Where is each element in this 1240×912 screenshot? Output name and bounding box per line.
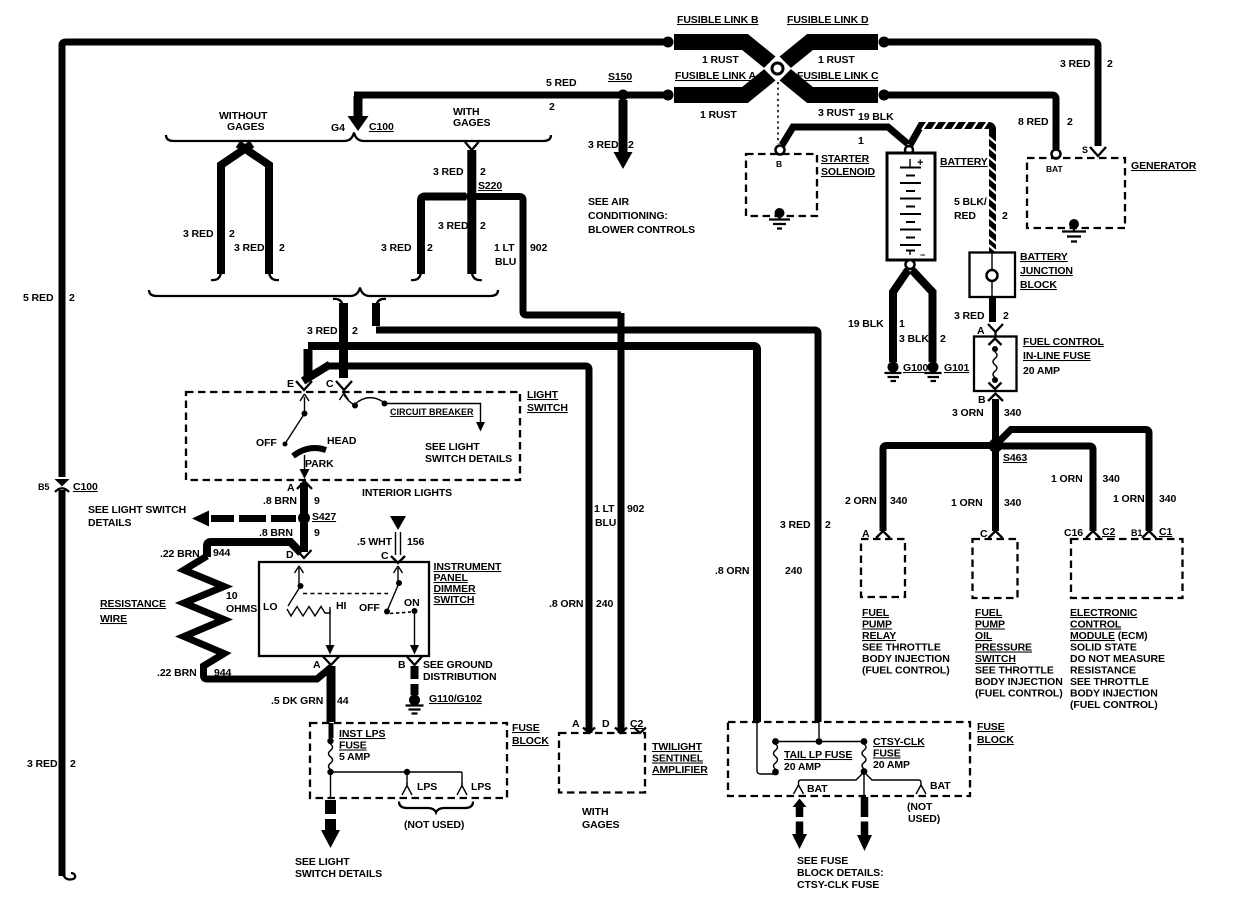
ctsy-clk fuse 20 amp <box>776 722 926 775</box>
svg-text:FUEL CONTROL: FUEL CONTROL <box>1023 336 1105 348</box>
generator terminal BAT circle <box>1046 150 1063 175</box>
twilight sentinel amplifier terminals A D C2 <box>572 718 646 733</box>
svg-text:CONDITIONING:: CONDITIONING: <box>588 210 668 222</box>
svg-text:8 RED: 8 RED <box>1018 116 1049 128</box>
fuel pump relay labels <box>862 607 950 677</box>
label 3 RED 2 (left vertical lower) <box>27 758 76 770</box>
svg-text:INST LPS: INST LPS <box>339 728 386 740</box>
svg-text:20 AMP: 20 AMP <box>1023 365 1060 377</box>
svg-text:RELAY: RELAY <box>862 630 896 642</box>
light switch box <box>186 392 520 480</box>
svg-text:2: 2 <box>1107 58 1113 70</box>
ground G110/G102 <box>406 693 483 714</box>
svg-text:FUSIBLE LINK B: FUSIBLE LINK B <box>677 14 759 26</box>
svg-text:WITH: WITH <box>582 806 608 818</box>
wire: 3 RED 2 from fusible link D to generator S <box>884 42 1098 146</box>
wire: 1 ORN 340 S463 right to ECM C16/C2 <box>1000 446 1120 531</box>
label with gages <box>453 106 491 129</box>
svg-text:SEE THROTTLE: SEE THROTTLE <box>975 665 1054 677</box>
svg-text:SWITCH: SWITCH <box>527 402 568 414</box>
svg-text:2: 2 <box>427 242 433 254</box>
fuel pump oil pressure switch box <box>973 539 1018 598</box>
svg-text:340: 340 <box>1004 407 1021 419</box>
svg-text:SEE THROTTLE: SEE THROTTLE <box>862 642 941 654</box>
svg-text:944: 944 <box>213 547 230 559</box>
thin wire through fuse block bottom <box>330 775 332 799</box>
svg-text:.8 BRN: .8 BRN <box>263 495 297 507</box>
connector G4 / C100 down arrow <box>331 96 394 134</box>
label LO / HI <box>263 600 346 613</box>
fusible link A and D crossover band <box>674 42 878 95</box>
svg-text:BLOWER CONTROLS: BLOWER CONTROLS <box>588 224 695 236</box>
svg-text:RED: RED <box>954 210 976 222</box>
svg-text:.22 BRN: .22 BRN <box>160 548 200 560</box>
svg-text:340: 340 <box>1004 497 1021 509</box>
svg-text:S427: S427 <box>312 511 336 523</box>
dimmer HI arm arrow to A <box>326 611 335 655</box>
svg-text:BLOCK DETAILS:: BLOCK DETAILS: <box>797 867 883 879</box>
svg-text:1 ORN: 1 ORN <box>1051 473 1083 485</box>
wire: 8 RED 2 from fusible link C to generator BAT <box>884 95 1056 149</box>
svg-text:(NOT USED): (NOT USED) <box>404 819 464 831</box>
svg-text:3 RED: 3 RED <box>954 310 985 322</box>
svg-text:3 RED: 3 RED <box>1060 58 1091 70</box>
light switch terminal E <box>287 378 312 390</box>
svg-text:5 RED: 5 RED <box>23 292 54 304</box>
svg-text:2: 2 <box>229 228 235 240</box>
svg-text:.22 BRN: .22 BRN <box>157 667 197 679</box>
svg-text:E: E <box>287 378 294 390</box>
svg-text:5 BLK/: 5 BLK/ <box>954 196 987 208</box>
svg-text:3 RED: 3 RED <box>433 166 464 178</box>
label OFF / ON <box>359 597 420 614</box>
svg-text:C: C <box>326 378 334 390</box>
svg-text:1: 1 <box>899 318 905 330</box>
wire to LPS terminals (not used) <box>331 769 492 795</box>
svg-text:340: 340 <box>1159 493 1176 505</box>
svg-text:DISTRIBUTION: DISTRIBUTION <box>423 671 496 683</box>
connector C100 upper brace <box>166 133 551 142</box>
svg-text:PARK: PARK <box>305 458 334 470</box>
svg-text:ON: ON <box>404 597 420 609</box>
electronic control module box <box>1071 539 1183 598</box>
svg-text:FUEL: FUEL <box>975 607 1003 619</box>
generator terminal S <box>1082 145 1106 156</box>
svg-text:2 ORN: 2 ORN <box>845 495 877 507</box>
dimmer terminal A <box>313 657 339 672</box>
wire: 5 BLK/RED fusible-link-style slashed wire to battery junction block <box>910 121 1008 252</box>
svg-text:(FUEL CONTROL): (FUEL CONTROL) <box>1070 699 1158 711</box>
svg-text:156: 156 <box>407 536 424 548</box>
svg-text:G110/G102: G110/G102 <box>429 693 482 705</box>
svg-text:C2: C2 <box>630 718 643 730</box>
label 5 RED 2 <box>546 77 577 113</box>
svg-text:2: 2 <box>940 333 946 345</box>
svg-text:BATTERY: BATTERY <box>940 156 988 168</box>
svg-text:19 BLK: 19 BLK <box>858 111 894 123</box>
svg-text:.8 BRN: .8 BRN <box>259 527 293 539</box>
svg-text:USED): USED) <box>908 813 940 825</box>
svg-text:A: A <box>572 718 580 730</box>
battery <box>887 153 988 260</box>
svg-text:LO: LO <box>263 601 277 613</box>
wire: 2 ORN 340 S463 to fuel pump relay A <box>845 446 996 532</box>
label light switch <box>527 389 568 414</box>
svg-text:3 RED: 3 RED <box>27 758 58 770</box>
generator box <box>1027 158 1125 228</box>
svg-text:A: A <box>977 325 985 337</box>
svg-text:D: D <box>602 718 610 730</box>
svg-text:OIL: OIL <box>975 630 993 642</box>
svg-text:20 AMP: 20 AMP <box>784 761 821 773</box>
svg-text:1: 1 <box>858 135 864 147</box>
svg-text:SOLID STATE: SOLID STATE <box>1070 642 1137 654</box>
svg-text:BODY INJECTION: BODY INJECTION <box>1070 688 1158 700</box>
wire: 3 RED 2 bus to bottom-right fuse block (CTSY-CLK) <box>376 330 831 722</box>
svg-text:S220: S220 <box>478 180 502 192</box>
fuel control in-line fuse terminal B <box>978 394 1003 407</box>
svg-text:240: 240 <box>596 598 613 610</box>
svg-text:SEE LIGHT: SEE LIGHT <box>425 441 480 453</box>
dashed arrow: see light switch details (bottom) <box>295 800 382 880</box>
svg-text:5 AMP: 5 AMP <box>339 751 370 763</box>
wire: 19 BLK 1 battery to ground G100 <box>893 270 908 362</box>
svg-text:FUSIBLE LINK D: FUSIBLE LINK D <box>787 14 869 26</box>
svg-text:2: 2 <box>352 325 358 337</box>
svg-text:SWITCH DETAILS: SWITCH DETAILS <box>295 868 382 880</box>
dimmer ON arm arrow to B <box>410 614 419 655</box>
svg-text:.5 DK GRN: .5 DK GRN <box>271 695 323 707</box>
wire: 3 RED tent left (without gages) <box>183 144 285 280</box>
svg-text:STARTER: STARTER <box>821 153 870 165</box>
splice S463 <box>989 439 1028 465</box>
light switch terminal C <box>326 378 352 390</box>
instrument panel dimmer switch box <box>259 562 429 656</box>
note: see ground distribution <box>423 659 496 683</box>
svg-text:FUSIBLE LINK C: FUSIBLE LINK C <box>797 70 879 82</box>
svg-text:GAGES: GAGES <box>227 121 265 133</box>
svg-text:S: S <box>1082 145 1088 155</box>
svg-text:340: 340 <box>1103 473 1120 485</box>
svg-text:2: 2 <box>1003 310 1009 322</box>
svg-text:3 ORN: 3 ORN <box>952 407 984 419</box>
svg-text:SEE FUSE: SEE FUSE <box>797 855 848 867</box>
dimmer terminal B <box>398 657 422 672</box>
wire: 3 RED S220 center down <box>438 200 486 280</box>
svg-text:PUMP: PUMP <box>975 619 1005 631</box>
crossover center diamond with circle <box>764 55 792 83</box>
svg-text:B: B <box>776 159 782 169</box>
svg-text:(FUEL CONTROL): (FUEL CONTROL) <box>975 688 1063 700</box>
svg-text:HI: HI <box>336 600 346 612</box>
svg-text:2: 2 <box>279 242 285 254</box>
wire: 1 LT BLU 902 S220 right branch jog <box>477 197 621 316</box>
tail lp fuse 20 amp <box>757 722 852 775</box>
wire: 3 BLK 2 battery to ground G101 <box>912 270 933 362</box>
svg-text:RESISTANCE: RESISTANCE <box>1070 665 1136 677</box>
note: see fuse block details <box>797 855 883 891</box>
connector C100 pin B5 (in-line connector symbol on left wire) <box>38 477 98 493</box>
wire: 1 ORN 340 S463 down to oil pressure switch C <box>951 450 1021 531</box>
svg-text:S150: S150 <box>608 71 632 83</box>
brace (not used) <box>399 802 473 832</box>
svg-text:SEE AIR: SEE AIR <box>588 196 629 208</box>
light switch PARK contact arc <box>293 448 326 456</box>
splice S427 <box>298 511 336 524</box>
generator ground <box>1062 219 1086 242</box>
svg-text:1 ORN: 1 ORN <box>951 497 983 509</box>
fuel pump relay box <box>861 539 905 597</box>
svg-text:3 RED: 3 RED <box>588 139 619 151</box>
svg-text:SENTINEL: SENTINEL <box>652 753 704 765</box>
dimmer terminal C <box>391 556 405 563</box>
light switch A arm arrow <box>300 455 310 479</box>
svg-text:G4: G4 <box>331 122 345 134</box>
light switch interior: E arm <box>283 394 310 447</box>
svg-text:1 RUST: 1 RUST <box>700 109 737 121</box>
dimmer terminal D <box>286 549 312 561</box>
svg-text:2: 2 <box>1067 116 1073 128</box>
svg-text:D: D <box>286 549 294 561</box>
svg-text:3 RUST: 3 RUST <box>818 107 855 119</box>
svg-text:9: 9 <box>314 527 320 539</box>
svg-text:C100: C100 <box>73 481 98 493</box>
ground G100 <box>885 362 929 382</box>
svg-text:DO NOT MEASURE: DO NOT MEASURE <box>1070 653 1165 665</box>
labels fusible links <box>675 14 894 123</box>
wire: .8 ORN 240 light switch E to tail lp fuse <box>308 346 802 722</box>
battery plus terminal circle <box>905 146 913 154</box>
svg-text:DETAILS: DETAILS <box>88 517 132 529</box>
svg-text:TWILIGHT: TWILIGHT <box>652 741 703 753</box>
INST LPS fuse 5 AMP <box>327 723 385 775</box>
light switch terminal A <box>287 481 312 494</box>
dimmer on/off switch <box>384 566 418 615</box>
svg-text:BAT: BAT <box>807 783 828 795</box>
ECM terminal C16/C2 <box>1064 526 1115 539</box>
svg-text:A: A <box>287 482 295 494</box>
bat terminals inside fuse block <box>794 772 952 826</box>
starter solenoid terminal B circle <box>776 146 785 155</box>
svg-text:.8 ORN: .8 ORN <box>715 565 749 577</box>
svg-text:(FUEL CONTROL): (FUEL CONTROL) <box>862 665 950 677</box>
label 5 RED 2 (left vertical upper) <box>23 292 75 304</box>
svg-text:BATTERY: BATTERY <box>1020 251 1068 263</box>
svg-text:2: 2 <box>549 101 555 113</box>
svg-text:1 RUST: 1 RUST <box>702 54 739 66</box>
svg-text:BODY INJECTION: BODY INJECTION <box>975 676 1063 688</box>
svg-text:SEE LIGHT SWITCH: SEE LIGHT SWITCH <box>88 504 186 516</box>
svg-text:C16: C16 <box>1064 527 1083 539</box>
svg-text:HEAD: HEAD <box>327 435 357 447</box>
wire: 5 RED from C100 G4 to S150 to fusible link A <box>354 92 664 99</box>
dashed ground wire below dimmer B <box>411 666 419 695</box>
svg-text:BLOCK: BLOCK <box>512 735 549 747</box>
wire: 3 RED down arrow to air conditioning <box>588 100 634 169</box>
svg-text:BAT: BAT <box>1046 164 1063 174</box>
node: fusible link end dots <box>663 37 890 101</box>
wire: 3 ORN 340 fuse B to splice S463 <box>952 399 1021 441</box>
wire: 3 RED 2 main feed below C100 to light switch C <box>307 299 358 378</box>
wire: second leg below C100 into 3 RED bus <box>376 299 386 326</box>
svg-text:CONTROL: CONTROL <box>1070 619 1122 631</box>
svg-text:19 BLK: 19 BLK <box>848 318 884 330</box>
svg-text:902: 902 <box>530 242 547 254</box>
dimmer interior: D arm to LO <box>288 566 388 606</box>
svg-text:3 BLK: 3 BLK <box>899 333 929 345</box>
fuel pump relay terminal A <box>862 528 890 540</box>
svg-text:3 RED: 3 RED <box>438 220 469 232</box>
fuse block (right) box <box>728 722 970 796</box>
resistance wire zigzag <box>100 556 332 679</box>
svg-text:OFF: OFF <box>256 437 277 449</box>
svg-text:2: 2 <box>628 139 634 151</box>
svg-text:S463: S463 <box>1003 452 1027 464</box>
svg-text:C: C <box>381 550 389 562</box>
wire: 5 RED left vertical feed from fusible link B <box>62 42 664 879</box>
svg-text:INTERIOR LIGHTS: INTERIOR LIGHTS <box>362 487 452 499</box>
fuel control in-line fuse terminal A <box>977 324 1003 337</box>
svg-text:B: B <box>978 394 986 406</box>
svg-text:2: 2 <box>1002 210 1008 222</box>
starter solenoid ground <box>769 208 790 229</box>
svg-text:SEE LIGHT: SEE LIGHT <box>295 856 350 868</box>
svg-text:902: 902 <box>627 503 644 515</box>
svg-text:240: 240 <box>785 565 802 577</box>
svg-text:LPS: LPS <box>471 781 491 793</box>
svg-text:BLOCK: BLOCK <box>977 734 1014 746</box>
starter solenoid box <box>746 153 876 216</box>
svg-text:2: 2 <box>825 519 831 531</box>
svg-text:CTSY-CLK FUSE: CTSY-CLK FUSE <box>797 879 879 891</box>
svg-text:B: B <box>398 659 406 671</box>
wire: 3 RED with-gages vertical to S220 <box>433 150 486 192</box>
svg-text:C100: C100 <box>369 121 394 133</box>
svg-text:3 RED: 3 RED <box>234 242 265 254</box>
svg-text:A: A <box>313 659 321 671</box>
svg-text:LPS: LPS <box>417 781 437 793</box>
svg-text:1 ORN: 1 ORN <box>1113 493 1145 505</box>
wire: .5 WHT 156 to dimmer C <box>357 516 424 562</box>
fuel control in-line fuse 20 AMP <box>974 336 1105 391</box>
ground G101 <box>925 362 970 382</box>
svg-text:BLU: BLU <box>495 256 516 268</box>
svg-text:JUNCTION: JUNCTION <box>1020 265 1073 277</box>
connector C100 lower brace <box>149 288 498 297</box>
oil pressure switch terminal C <box>980 528 1003 540</box>
svg-text:LIGHT: LIGHT <box>527 389 559 401</box>
wire: 1 LT BLU 902 down to twilight amplifier D <box>594 313 644 733</box>
svg-text:FUSIBLE LINK A: FUSIBLE LINK A <box>675 70 757 82</box>
svg-text:CIRCUIT BREAKER: CIRCUIT BREAKER <box>390 407 474 417</box>
svg-text:PUMP: PUMP <box>862 619 892 631</box>
svg-text:.8 ORN: .8 ORN <box>549 598 583 610</box>
note: see air conditioning blower controls <box>588 196 695 236</box>
svg-text:OHMS: OHMS <box>226 603 257 615</box>
svg-text:SWITCH: SWITCH <box>975 653 1016 665</box>
svg-text:FUSE: FUSE <box>339 740 367 752</box>
svg-text:1 RUST: 1 RUST <box>818 54 855 66</box>
svg-text:3 RED: 3 RED <box>381 242 412 254</box>
wire: .8 ORN 240 light switch E diagonal to twilight amplifier A <box>303 365 613 734</box>
svg-text:B1: B1 <box>1131 528 1142 538</box>
label without gages <box>219 110 268 133</box>
svg-text:IN-LINE FUSE: IN-LINE FUSE <box>1023 350 1091 362</box>
svg-text:3 RED: 3 RED <box>307 325 338 337</box>
ECM terminal B1/C1 <box>1131 526 1172 538</box>
svg-text:2: 2 <box>480 220 486 232</box>
svg-text:WIRE: WIRE <box>100 613 127 625</box>
wire: .8 BRN 9 S427 to dimmer D <box>259 523 320 552</box>
svg-text:PRESSURE: PRESSURE <box>975 642 1032 654</box>
splice S220 <box>466 180 503 203</box>
svg-text:10: 10 <box>226 590 238 602</box>
fusible link B and C crossover band <box>674 42 878 95</box>
wire: .5 DK GRN 44 dimmer A to fuse block <box>271 666 349 722</box>
svg-text:BAT: BAT <box>930 780 951 792</box>
svg-text:SEE THROTTLE: SEE THROTTLE <box>1070 676 1149 688</box>
svg-text:1 LT: 1 LT <box>594 503 615 515</box>
svg-text:FUEL: FUEL <box>862 607 890 619</box>
svg-text:(NOT: (NOT <box>907 801 933 813</box>
svg-text:944: 944 <box>214 667 231 679</box>
svg-text:3 RED: 3 RED <box>780 519 811 531</box>
svg-text:RESISTANCE: RESISTANCE <box>100 598 166 610</box>
svg-text:G101: G101 <box>944 362 970 374</box>
svg-text:CTSY-CLK: CTSY-CLK <box>873 736 925 748</box>
dimmer switch labels <box>434 561 503 606</box>
dashed arrow down (ctsy-clk feed) <box>857 797 872 851</box>
wire: 3 RED S220 left branch <box>381 197 466 281</box>
svg-text:2: 2 <box>69 292 75 304</box>
battery minus terminal circle <box>906 260 915 269</box>
wire: .8 BRN 9 light switch A to S427 <box>263 483 320 513</box>
dashed arrow with up and down heads (tail lp feed) <box>792 799 807 850</box>
svg-text:TAIL LP FUSE: TAIL LP FUSE <box>784 749 852 761</box>
splice S150 <box>608 71 632 101</box>
svg-text:ELECTRONIC: ELECTRONIC <box>1070 607 1138 619</box>
circuit breaker in light switch <box>340 393 486 432</box>
svg-text:340: 340 <box>890 495 907 507</box>
wire: 19 BLK 1 starter solenoid to battery <box>782 127 908 145</box>
svg-text:OFF: OFF <box>359 602 380 614</box>
wire: 3 RED 2 junction block to fuel control fuse A <box>954 297 1009 322</box>
svg-text:3 RED: 3 RED <box>183 228 214 240</box>
svg-text:9: 9 <box>314 495 320 507</box>
svg-text:20 AMP: 20 AMP <box>873 759 910 771</box>
svg-text:GENERATOR: GENERATOR <box>1131 160 1197 172</box>
svg-text:FUSE: FUSE <box>512 722 540 734</box>
twilight sentinel amplifier box <box>559 733 645 793</box>
svg-text:.5 WHT: .5 WHT <box>357 536 393 548</box>
svg-text:2: 2 <box>70 758 76 770</box>
note: see light switch details (inside box) <box>425 441 512 465</box>
svg-text:AMPLIFIER: AMPLIFIER <box>652 764 708 776</box>
fuse block (left) box <box>310 723 507 798</box>
battery junction block <box>970 251 1073 297</box>
ECM labels <box>1070 607 1165 711</box>
svg-text:MODULE (ECM): MODULE (ECM) <box>1070 630 1148 642</box>
svg-text:SEE GROUND: SEE GROUND <box>423 659 493 671</box>
svg-text:BODY INJECTION: BODY INJECTION <box>862 653 950 665</box>
svg-text:44: 44 <box>337 695 349 707</box>
svg-text:1 LT: 1 LT <box>494 242 515 254</box>
svg-text:SWITCH: SWITCH <box>434 594 475 606</box>
dimmer rheostat zigzag <box>287 607 330 617</box>
svg-text:C2: C2 <box>1102 526 1115 538</box>
svg-text:BLU: BLU <box>595 517 616 529</box>
svg-text:C1: C1 <box>1159 526 1172 538</box>
